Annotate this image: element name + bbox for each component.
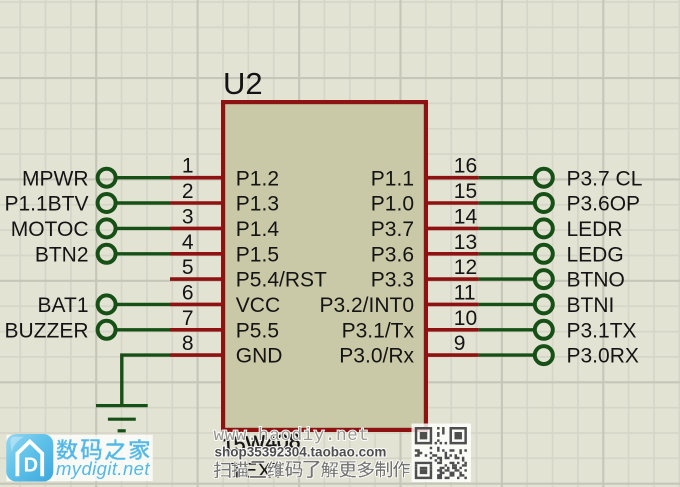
svg-text:BUZZER: BUZZER — [5, 319, 89, 342]
terminal LEDG — [535, 245, 553, 263]
wire pin 8 to ground — [122, 355, 170, 404]
wire to terminal LEDG — [479, 252, 533, 255]
svg-text:shop35392304.taobao.com: shop35392304.taobao.com — [215, 445, 387, 460]
wire to terminal BUZZER — [117, 328, 170, 331]
svg-text:15: 15 — [454, 180, 477, 203]
svg-text:7: 7 — [182, 307, 194, 330]
svg-text:P1.4: P1.4 — [236, 218, 280, 241]
svg-text:12: 12 — [454, 256, 477, 279]
terminal P1.1BTV — [98, 194, 116, 212]
terminal BTNI — [535, 295, 553, 313]
svg-text:P3.0RX: P3.0RX — [567, 345, 639, 368]
svg-text:1: 1 — [182, 155, 194, 178]
svg-text:D: D — [24, 455, 38, 477]
terminal LEDR — [535, 219, 553, 237]
svg-text:P3.1TX: P3.1TX — [567, 319, 637, 342]
svg-text:P1.0: P1.0 — [371, 193, 414, 216]
pin 15 stub — [425, 201, 479, 205]
watermark chinese caption — [214, 461, 411, 478]
svg-text:P1.2: P1.2 — [236, 167, 279, 190]
wire to terminal BTNO — [479, 277, 533, 280]
pin 11 stub — [425, 303, 479, 307]
pin 10 stub — [425, 328, 479, 332]
svg-text:P1.1BTV: P1.1BTV — [4, 193, 88, 216]
terminal P3.6OP — [535, 194, 553, 212]
svg-text:P5.4/RST: P5.4/RST — [236, 269, 327, 292]
wire to terminal P3.6OP — [479, 201, 533, 204]
wire to terminal BTN2 — [117, 252, 170, 255]
svg-text:3: 3 — [182, 205, 194, 228]
terminal BUZZER — [98, 321, 116, 339]
svg-text:LEDG: LEDG — [567, 243, 624, 266]
svg-text:P3.0/Rx: P3.0/Rx — [339, 345, 414, 368]
ground — [96, 406, 148, 431]
pin 16 stub — [425, 176, 479, 180]
IC U2 body — [223, 102, 426, 430]
svg-text:10: 10 — [454, 307, 477, 330]
svg-text:P3.3: P3.3 — [371, 269, 414, 292]
wire to terminal LEDR — [479, 227, 533, 230]
pin 12 stub — [425, 277, 479, 281]
svg-text:U2: U2 — [223, 66, 263, 101]
svg-text:P3.6OP: P3.6OP — [567, 193, 641, 216]
svg-text:P1.3: P1.3 — [236, 193, 279, 216]
svg-text:14: 14 — [454, 205, 478, 228]
svg-text:VCC: VCC — [236, 294, 280, 317]
wire to terminal BTNI — [479, 303, 533, 306]
wire to terminal P3.7 CL — [479, 176, 533, 179]
svg-text:9: 9 — [454, 332, 466, 355]
terminal BTN2 — [98, 245, 116, 263]
pin 5 stub — [170, 277, 224, 281]
terminal BAT1 — [98, 295, 116, 313]
watermark mydigit.net logo — [6, 434, 153, 482]
svg-text:www.haodiy.net: www.haodiy.net — [214, 426, 370, 446]
svg-text:2: 2 — [182, 180, 194, 203]
svg-text:BTN2: BTN2 — [35, 243, 89, 266]
svg-text:P3.1/Tx: P3.1/Tx — [342, 319, 415, 342]
pin 4 stub — [170, 252, 224, 256]
wire to terminal P3.1TX — [479, 328, 533, 331]
svg-text:6: 6 — [182, 281, 194, 304]
svg-text:11: 11 — [454, 281, 476, 304]
svg-text:8: 8 — [182, 332, 194, 355]
svg-text:P3.7 CL: P3.7 CL — [567, 167, 643, 190]
svg-text:BTNI: BTNI — [567, 294, 615, 317]
svg-text:13: 13 — [454, 231, 477, 254]
wire to terminal BAT1 — [117, 303, 170, 306]
pin 6 stub — [170, 303, 224, 307]
pin 14 stub — [425, 227, 479, 231]
pin 9 stub — [425, 353, 479, 357]
pin 8 stub — [170, 353, 224, 357]
svg-text:P3.2/INT0: P3.2/INT0 — [319, 294, 414, 317]
terminal P3.1TX — [535, 321, 553, 339]
terminal BTNO — [535, 270, 553, 288]
svg-text:4: 4 — [182, 231, 194, 254]
terminal MOTOC — [98, 219, 116, 237]
svg-text:16: 16 — [454, 155, 477, 178]
svg-text:LEDR: LEDR — [567, 218, 623, 241]
pin 2 stub — [170, 201, 224, 205]
wire to terminal P1.1BTV — [117, 201, 170, 204]
terminal MPWR — [98, 169, 116, 187]
svg-text:P3.7: P3.7 — [371, 218, 414, 241]
svg-text:BTNO: BTNO — [567, 269, 625, 292]
wire to terminal P3.0RX — [479, 353, 533, 356]
svg-text:BAT1: BAT1 — [38, 294, 89, 317]
svg-text:MOTOC: MOTOC — [11, 218, 89, 241]
QR code watermark — [412, 424, 472, 483]
svg-text:5: 5 — [182, 256, 194, 279]
svg-text:mydigit.net: mydigit.net — [56, 458, 150, 479]
pin 13 stub — [425, 252, 479, 256]
wire to terminal MPWR — [117, 176, 170, 179]
svg-text:P1.1: P1.1 — [371, 167, 414, 190]
terminal P3.7 CL — [535, 169, 553, 187]
svg-text:P5.5: P5.5 — [236, 319, 279, 342]
svg-text:P3.6: P3.6 — [371, 243, 414, 266]
pin 3 stub — [170, 227, 224, 231]
svg-text:GND: GND — [236, 345, 283, 368]
svg-text:MPWR: MPWR — [22, 167, 89, 190]
pin 1 stub — [170, 176, 224, 180]
pin 7 stub — [170, 328, 224, 332]
wire to terminal MOTOC — [117, 227, 170, 230]
svg-text:P1.5: P1.5 — [236, 243, 279, 266]
terminal P3.0RX — [535, 346, 553, 364]
